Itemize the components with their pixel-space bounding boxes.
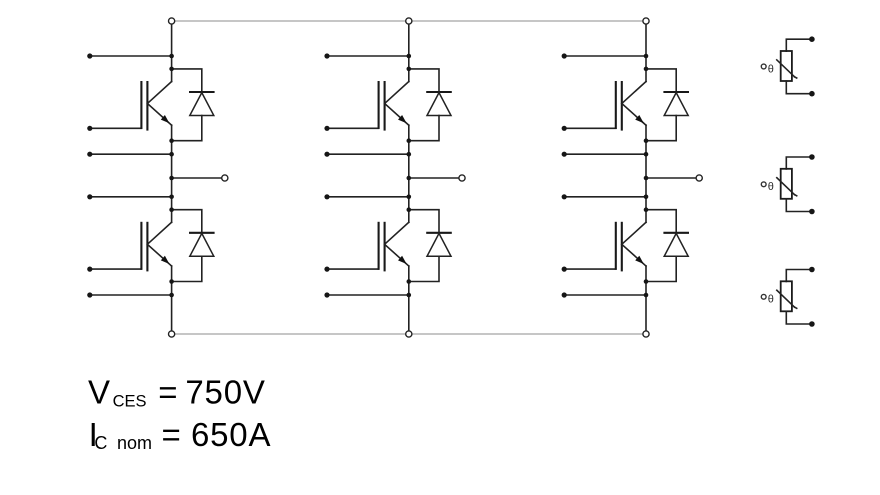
terminal: Q1 gate [87,126,92,131]
terminal: R1 top [809,36,815,42]
wire: phase W AC output stub [646,177,696,179]
junction: D4 anode branch [407,279,412,284]
diode D5 (antiparallel) [646,69,689,141]
wire: Q3 emitter aux stub [327,153,409,155]
terminal: Q6 collector aux [562,194,567,199]
igbt Q6 [616,222,646,272]
diode D1 (antiparallel) [172,69,215,141]
label: VCES rating [88,373,266,410]
wire: Q3 gate lead [327,127,379,129]
wire: phase V midpoint vertical (upper emitter to lower collector) [408,125,410,222]
svg-text:CES: CES [113,393,147,411]
igbt Q2 [141,222,171,272]
terminal: phase U AC output [222,175,228,181]
svg-text:750V: 750V [185,373,265,410]
terminal: Q6 emitter aux [562,292,567,297]
terminal: Q2 emitter aux [87,292,92,297]
wire: Q2 collector aux stub [90,196,172,198]
junction: Q6 collector stub joins vertical [644,195,649,200]
terminal: Q2 collector aux [87,194,92,199]
junction: D5 cathode branch [644,67,649,72]
junction: Q3 collector stub joins vertical [407,54,412,59]
wire: Q1 collector aux stub [90,55,172,57]
terminal: R3 bottom [809,321,815,327]
terminal: Q2 gate [87,267,92,272]
igbt Q5 [616,81,646,131]
wire: Q4 gate lead [327,268,379,270]
wire: Q5 collector aux stub [564,55,646,57]
junction: Q2 collector stub joins vertical [169,195,174,200]
wire: Q2 gate lead [90,268,142,270]
junction: Q1 collector stub joins vertical [169,54,174,59]
label: IC nom rating [89,416,272,453]
wire: Q5 emitter aux stub [564,153,646,155]
junction: D6 cathode branch [644,207,649,212]
wire: Q2 emitter aux stub [90,294,172,296]
terminal: phase W AC output [696,175,702,181]
junction: D6 anode branch [644,279,649,284]
svg-text:θ: θ [768,63,774,75]
bottom DC- bus rail [172,333,646,335]
junction: Q4 emitter stub joins vertical [407,293,412,298]
junction: Q3 emitter stub joins vertical [407,152,412,157]
terminal: R2 bottom [809,209,815,215]
junction: D2 cathode branch [169,207,174,212]
wire: Q4 collector aux stub [327,196,409,198]
wire: Q6 gate lead [564,268,616,270]
junction: D4 cathode branch [407,207,412,212]
terminal: Q3 gate [324,126,329,131]
wire: phase W midpoint vertical (upper emitter to lower collector) [645,125,647,222]
junction: phase W midpoint [644,176,649,181]
wire: phase U collector drop from DC+ [171,21,173,82]
junction: D1 cathode branch [169,67,174,72]
terminal: Q5 gate [562,126,567,131]
junction: Q5 collector stub joins vertical [644,54,649,59]
igbt Q3 [379,81,409,131]
thermistor R1 (NTC) [761,39,812,93]
svg-text:=: = [158,373,178,410]
junction: Q6 emitter stub joins vertical [644,293,649,298]
terminal: R2 top [809,154,815,160]
wire: phase U AC output stub [172,177,222,179]
terminal: R1 bottom [809,91,815,97]
terminal: Q1 collector aux [87,53,92,58]
top DC+ bus rail [172,20,646,22]
thermistor R3 (NTC) [761,270,812,325]
wire: phase U midpoint vertical (upper emitter to lower collector) [171,125,173,222]
junction: D3 cathode branch [407,67,412,72]
terminal: R3 top [809,267,815,273]
wire: Q1 gate lead [90,127,142,129]
diode D3 (antiparallel) [409,69,452,141]
junction: phase V midpoint [407,176,412,181]
wire: Q6 collector aux stub [564,196,646,198]
igbt Q1 [141,81,171,131]
wire: Q3 collector aux stub [327,55,409,57]
terminal: Q1 emitter aux [87,152,92,157]
terminal: Q6 gate [562,267,567,272]
svg-text:θ: θ [768,181,774,193]
wire: phase W lower emitter drop to DC- [645,266,647,334]
terminal: Q3 emitter aux [324,152,329,157]
junction: Q4 collector stub joins vertical [407,195,412,200]
wire: Q5 gate lead [564,127,616,129]
wire: phase V AC output stub [409,177,459,179]
wire: Q4 emitter aux stub [327,294,409,296]
terminal: phase V DC+ [406,18,412,24]
junction: Q5 emitter stub joins vertical [644,152,649,157]
terminal: Q5 collector aux [562,53,567,58]
diode D6 (antiparallel) [646,210,689,282]
terminal: phase U DC- [169,331,175,337]
svg-text:=: = [162,416,182,453]
terminal: phase W DC- [643,331,649,337]
junction: D1 anode branch [169,138,174,143]
terminal: Q4 collector aux [324,194,329,199]
svg-text:θ: θ [768,294,774,306]
wire: phase V collector drop from DC+ [408,21,410,82]
svg-text:nom: nom [117,433,152,453]
junction: D3 anode branch [407,138,412,143]
junction: Q1 emitter stub joins vertical [169,152,174,157]
junction: D2 anode branch [169,279,174,284]
terminal: phase V DC- [406,331,412,337]
wire: Q1 emitter aux stub [90,153,172,155]
diode D2 (antiparallel) [172,210,215,282]
wire: phase V lower emitter drop to DC- [408,266,410,334]
terminal: Q4 gate [324,267,329,272]
svg-text:C: C [94,433,107,453]
thermistor R2 (NTC) [761,157,812,212]
terminal: phase U DC+ [169,18,175,24]
junction: phase U midpoint [169,176,174,181]
wire: Q6 emitter aux stub [564,294,646,296]
terminal: Q4 emitter aux [324,292,329,297]
igbt Q4 [379,222,409,272]
diode D4 (antiparallel) [409,210,452,282]
terminal: phase V AC output [459,175,465,181]
terminal: phase W DC+ [643,18,649,24]
terminal: Q3 collector aux [324,53,329,58]
junction: D5 anode branch [644,138,649,143]
svg-text:V: V [88,373,111,410]
wire: phase U lower emitter drop to DC- [171,266,173,334]
terminal: Q5 emitter aux [562,152,567,157]
svg-text:650A: 650A [191,416,271,453]
wire: phase W collector drop from DC+ [645,21,647,82]
junction: Q2 emitter stub joins vertical [169,293,174,298]
